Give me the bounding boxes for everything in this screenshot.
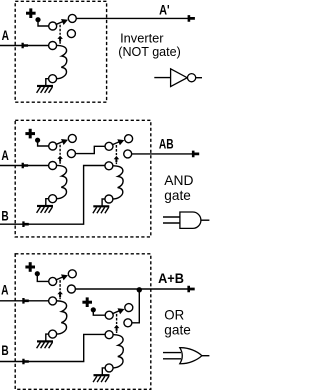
svg-text:A: A: [1, 281, 8, 297]
NOT gate symbol triangle: [171, 69, 188, 87]
OR gate symbol input wires: [163, 353, 181, 359]
wire plus terminal to relay K4 common: [37, 275, 48, 281]
relay K5 common contact: [105, 311, 113, 319]
relay K1 actuation dashed link with up arrow: [57, 25, 63, 44]
wire input A to relay K2 coil, with arrow: [0, 163, 49, 169]
AND gate symbol body: [180, 212, 201, 228]
AND gate symbol output wire: [201, 219, 209, 221]
wire K1 coil to ground: [46, 79, 49, 86]
relay K5 coil top terminal: [105, 331, 113, 339]
relay K4 NO contact: [67, 285, 75, 293]
ground symbol of relay K3: [93, 206, 109, 213]
relay K1 coil top terminal: [49, 42, 57, 50]
OR gate symbol body: [180, 348, 202, 364]
AND gate symbol input wires: [163, 217, 180, 223]
svg-text:gate: gate: [164, 187, 191, 203]
relay K4 coil winding: [57, 301, 67, 334]
relay K2 actuation dashed link with up arrow: [57, 145, 63, 164]
power supply plus terminal (AND): [25, 129, 35, 139]
wire plus terminal to relay K2 common: [38, 142, 49, 147]
relay K3 coil bottom terminal: [105, 195, 113, 203]
relay K1 NC contact: [68, 14, 76, 22]
ground symbol of relay K2: [37, 206, 53, 213]
relay K5 coil winding: [113, 335, 123, 368]
wire input A to relay K1 coil, with arrow: [0, 43, 49, 49]
relay K3 coil top terminal: [105, 162, 113, 170]
relay K4 coil top terminal: [49, 297, 57, 305]
wire plus terminal to relay K1 common: [38, 21, 49, 26]
NOT gate symbol input wire: [154, 77, 170, 79]
relay K4 coil bottom terminal: [49, 330, 57, 338]
NOT gate symbol output wire: [196, 77, 202, 79]
wire plus terminal to relay K5 common: [93, 311, 105, 315]
wire K3 coil to ground: [102, 199, 105, 206]
svg-text:AND: AND: [164, 172, 193, 188]
relay K5 NC contact: [125, 304, 133, 312]
relay K3 armature arm with arrowhead: [112, 139, 125, 145]
relay K1 common contact: [49, 22, 57, 30]
power supply plus terminal (OR, relay K5): [82, 297, 92, 307]
power supply plus terminal (inverter): [26, 8, 36, 18]
dashed enclosure box of inverter circuit: [15, 1, 106, 102]
svg-text:OR: OR: [164, 307, 184, 323]
relay K3 NC contact: [125, 135, 133, 143]
svg-text:A: A: [1, 147, 8, 163]
svg-text:gate: gate: [164, 322, 191, 338]
wire K5 NO contact up to output line: [132, 291, 139, 323]
relay K4 NC contact: [68, 270, 76, 278]
relay K3 NO contact: [124, 150, 132, 158]
relay K2 armature arm with arrowhead: [56, 139, 69, 145]
relay K2 NC contact: [68, 134, 76, 142]
relay K2 coil winding: [57, 165, 67, 198]
relay K1 coil bottom terminal: [49, 75, 57, 83]
relay K2 coil top terminal: [49, 162, 57, 170]
power supply dot terminal (OR, relay K4): [35, 271, 40, 276]
power supply dot terminal (inverter): [35, 17, 40, 22]
relay K5 NO contact: [124, 319, 132, 327]
relay K1 armature arm with arrowhead: [56, 19, 69, 25]
svg-text:A': A': [159, 2, 170, 18]
svg-text:B: B: [1, 342, 8, 358]
relay K1 NO contact: [67, 30, 75, 38]
wire K1 NC contact to output A' with arrow: [76, 15, 195, 22]
ground symbol of relay K5: [93, 375, 109, 382]
relay K2 coil bottom terminal: [49, 195, 57, 203]
relay K5 armature arm with arrowhead: [112, 308, 125, 314]
dashed enclosure box of AND circuit: [15, 120, 151, 237]
svg-text:AB: AB: [159, 135, 174, 151]
OR gate symbol output wire: [202, 355, 210, 357]
power supply dot terminal (OR, relay K5): [91, 307, 96, 312]
relay K3 actuation dashed link with up arrow: [114, 145, 120, 164]
dashed enclosure box of OR circuit: [15, 254, 151, 389]
relay K2 NO contact: [67, 150, 75, 158]
junction dot on output line: [137, 287, 142, 292]
relay K4 armature arm with arrowhead: [56, 274, 69, 280]
relay K3 common contact: [105, 142, 113, 150]
ground symbol of relay K1: [37, 86, 53, 93]
wire K2 NO contact to K3 common (series connection): [75, 146, 105, 153]
relay K2 common contact: [49, 142, 57, 150]
ground symbol of relay K4: [37, 341, 53, 348]
svg-text:A: A: [2, 27, 9, 43]
relay K5 actuation dashed link with up arrow: [114, 314, 120, 333]
svg-text:B: B: [1, 208, 8, 224]
NOT gate symbol inversion bubble: [188, 74, 196, 82]
wire K4 NO contact to output A+B with arrow: [75, 286, 194, 293]
wire input B to relay K5 coil, with arrow: [0, 334, 105, 364]
svg-text:A+B: A+B: [158, 270, 184, 286]
svg-text:(NOT gate): (NOT gate): [118, 44, 181, 59]
relay K5 coil bottom terminal: [105, 364, 113, 372]
relay K4 common contact: [49, 277, 57, 285]
relay K3 coil winding: [113, 166, 123, 199]
wire K3 NO contact to output AB with arrow: [132, 151, 200, 158]
wire input B to relay K3 coil, with arrow: [0, 166, 105, 228]
relay K4 actuation dashed link with up arrow: [57, 280, 63, 299]
relay K1 coil winding: [57, 45, 67, 78]
power supply dot terminal (AND): [35, 138, 40, 143]
power supply plus terminal (OR, relay K4): [25, 262, 35, 272]
wire K4 coil to ground: [46, 334, 49, 341]
wire K5 coil to ground: [102, 368, 105, 375]
wire input A to relay K4 coil, with arrow: [0, 298, 49, 304]
wire K2 coil to ground: [46, 199, 49, 206]
